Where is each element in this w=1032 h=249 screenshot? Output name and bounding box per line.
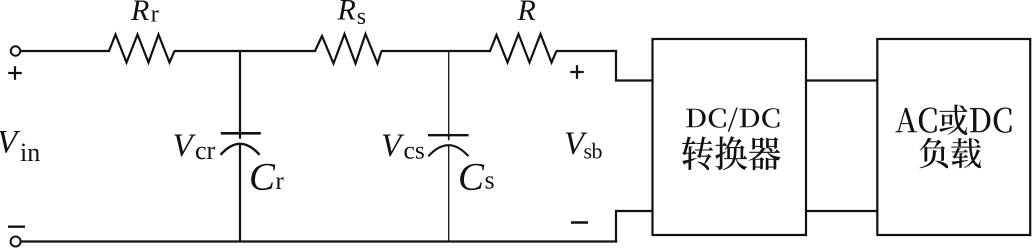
label: DC/DC (converter title, line 1) xyxy=(686,107,779,131)
svg-text:cr: cr xyxy=(195,136,216,165)
svg-text:cs: cs xyxy=(404,136,425,165)
label Cs xyxy=(458,156,495,199)
wire: Cr branch from capacitor to bottom rail xyxy=(239,144,241,242)
svg-text:R: R xyxy=(130,0,149,27)
label Cr xyxy=(249,156,285,199)
label Vcs xyxy=(381,128,425,164)
svg-text:sb: sb xyxy=(584,138,603,163)
terminal: input positive (circle) xyxy=(11,46,20,55)
svg-text:C: C xyxy=(249,156,276,199)
terminal: input negative (circle) xyxy=(11,237,21,247)
label Vcr xyxy=(173,128,216,165)
label Vsb xyxy=(564,126,603,163)
capacitor Cs (polarized) xyxy=(428,135,469,156)
resistor Rr xyxy=(109,35,175,63)
resistor R xyxy=(490,34,557,63)
polarity mark: + at Vsb xyxy=(570,65,584,79)
wire: DC/DC output to load (bottom) xyxy=(806,210,877,212)
label: 转换器 (converter title, line 2) xyxy=(682,136,780,170)
wire: top rail, input terminal to resistor Rr xyxy=(21,50,111,52)
block: DC/DC converter xyxy=(653,39,807,235)
svg-text:V: V xyxy=(381,128,405,164)
label Vin xyxy=(0,125,40,168)
svg-text:V: V xyxy=(173,128,197,164)
label: AC或DC (load title, line 1) xyxy=(895,104,1011,135)
polarity mark: + at input xyxy=(8,66,22,80)
polarity mark: − (overbar) at input negative xyxy=(8,225,25,227)
wire: top rail, Rr to Rs through node at Cr branch xyxy=(174,50,316,52)
polarity mark: − at Vsb xyxy=(571,221,588,224)
label Rs xyxy=(337,0,367,30)
resistor Rs xyxy=(315,34,382,64)
svg-text:r: r xyxy=(276,168,285,195)
svg-text:in: in xyxy=(20,138,40,167)
label R xyxy=(517,0,536,27)
svg-text:s: s xyxy=(357,4,366,30)
svg-text:R: R xyxy=(337,0,356,27)
wire: top rail, Rs to R through node at Cs branch xyxy=(381,50,491,52)
wire: Cs branch from capacitor to bottom rail (thin) xyxy=(448,145,450,242)
wire: Cr branch from top rail to capacitor xyxy=(239,50,241,133)
wire: step down into DC/DC converter input (top) xyxy=(616,50,653,81)
capacitor Cr (polarized) xyxy=(221,133,261,155)
svg-text:V: V xyxy=(0,125,21,161)
svg-text:r: r xyxy=(151,2,159,28)
label Rr xyxy=(130,0,159,28)
wire: Cs branch from top rail to capacitor (thin) xyxy=(448,50,450,135)
wire: step up into DC/DC converter input (bottom) xyxy=(616,211,653,243)
wire: bottom rail, input terminal to step corner xyxy=(21,240,618,242)
block: AC or DC load xyxy=(877,39,1030,235)
svg-text:R: R xyxy=(517,0,536,27)
svg-text:C: C xyxy=(458,156,485,199)
svg-text:s: s xyxy=(485,166,495,195)
wire: DC/DC output to load (top) xyxy=(806,79,877,81)
wire: top rail, R to step corner xyxy=(556,50,617,52)
label: 负载 (load title, line 2) xyxy=(919,138,981,169)
